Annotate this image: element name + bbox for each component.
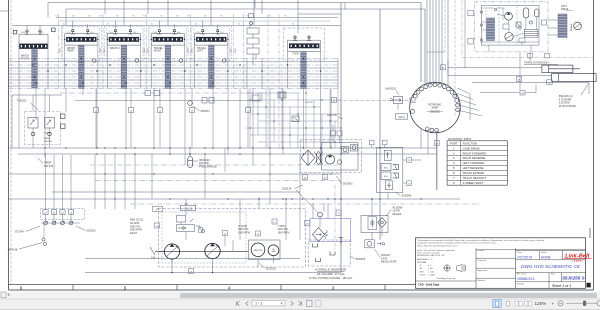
svg-text:EACH: EACH	[130, 232, 137, 235]
svg-text:C R A N E S: C R A N E S	[572, 260, 583, 263]
solenoid valve MAJ5152	[386, 88, 408, 120]
svg-text:RELIEF: RELIEF	[393, 213, 402, 216]
right drive motor assembly	[462, 0, 594, 58]
svg-text:125%: 125%	[535, 301, 547, 306]
svg-text:3000: 3000	[104, 47, 106, 53]
wire top-right jumper	[255, 0, 341, 14]
label 7 GPM	[278, 225, 290, 235]
wire cylinder feeds	[441, 65, 590, 95]
Link-Belt logo	[564, 253, 592, 262]
svg-text:950: 950	[55, 16, 58, 18]
oil fan pump P4	[268, 245, 279, 256]
sheet bottom border	[9, 285, 594, 291]
wire joint right fanout	[458, 85, 537, 121]
svg-text:OIL VOLUME - 117 GAL: OIL VOLUME - 117 GAL	[317, 272, 346, 276]
svg-text:RIGHT: RIGHT	[154, 50, 162, 53]
svg-text:950: 950	[284, 16, 287, 18]
svg-text:Weight: Weight	[517, 283, 524, 286]
pressure labels	[60, 47, 237, 53]
sheet left border	[9, 0, 12, 290]
svg-text:JOINT: JOINT	[431, 106, 439, 110]
label PRDR 500 PSI	[38, 158, 54, 168]
svg-text:950: 950	[116, 16, 119, 18]
svg-text:950: 950	[220, 16, 223, 18]
svg-text:A1: A1	[107, 23, 109, 26]
wire bus drops	[19, 89, 331, 166]
pilot manifold grid	[60, 89, 262, 149]
svg-text:NONE: NONE	[541, 255, 552, 259]
label HI GPM	[238, 225, 250, 235]
svg-text:Material: Material	[478, 279, 486, 282]
svg-text:3000: 3000	[100, 47, 102, 53]
pump shaft	[150, 247, 249, 260]
svg-text:and details contained herein i: and details contained herein is prohibit…	[417, 242, 497, 245]
svg-text:SOL: SOL	[384, 168, 389, 170]
svg-text:Third Angle Projection: Third Angle Projection	[436, 277, 456, 280]
svg-text:A1: A1	[292, 23, 294, 26]
svg-text:3000: 3000	[191, 47, 193, 53]
sheet right border	[590, 0, 594, 290]
svg-text:FRONT: FRONT	[21, 57, 30, 60]
svg-text:950: 950	[204, 16, 207, 18]
valve bank V1 WINCH FRONT	[19, 26, 48, 89]
svg-text:TOTAL SYSTEM VOLUME - 186 GAL: TOTAL SYSTEM VOLUME - 186 GAL	[309, 276, 353, 280]
label track extension	[524, 61, 558, 65]
pump group enclosure 55J0225	[159, 209, 306, 268]
svg-text:950: 950	[88, 16, 91, 18]
svg-text:LEFT FORWARD: LEFT FORWARD	[463, 161, 485, 165]
label 55J0225	[259, 263, 276, 270]
label R&B CO pumps	[130, 219, 144, 236]
relief valve P1J0086 10 PSI	[361, 198, 403, 240]
svg-text:2/27/2015: 2/27/2015	[517, 255, 532, 259]
svg-text:SOL: SOL	[384, 176, 389, 178]
cylinder C2	[552, 74, 597, 82]
svg-text:REGULATOR: REGULATOR	[381, 261, 397, 264]
port tags pump group	[155, 219, 278, 274]
svg-text:2-SPEED SHIFT: 2-SPEED SHIFT	[463, 181, 484, 185]
svg-text:This drawing is the property o: This drawing is the property of Link-Bel…	[417, 239, 544, 242]
wire mid lines	[9, 147, 481, 204]
pdf viewer toolbar	[0, 299, 600, 310]
svg-text:J8G0148: J8G0148	[8, 249, 18, 252]
svg-text:REFERENCE LEAD PLUS .005: REFERENCE LEAD PLUS .005	[417, 254, 444, 257]
svg-text:PRECHARGE: PRECHARGE	[199, 164, 217, 168]
accumulator 08J0130	[188, 153, 217, 168]
svg-text:55J0256 S: 55J0256 S	[562, 276, 585, 281]
left drive motor	[548, 5, 581, 38]
gerotor pump P3	[249, 240, 281, 260]
solenoid valve block 35J5086	[369, 82, 421, 199]
svg-text:J7J0784: J7J0784	[15, 231, 25, 234]
svg-text:REAR: REAR	[67, 50, 74, 53]
svg-text:55J0005: 55J0005	[356, 258, 366, 261]
wire top feeds	[0, 0, 425, 273]
svg-text:HYDRAULIC RESERVOIR: HYDRAULIC RESERVOIR	[315, 268, 346, 272]
svg-text:950: 950	[268, 16, 271, 18]
svg-text:35J5086: 35J5086	[402, 195, 412, 198]
svg-text:Date: Date	[517, 251, 522, 254]
svg-text:.XXX: .XXX	[419, 271, 424, 273]
svg-text:4H88M2013: 4H88M2013	[517, 277, 535, 281]
main pump P1	[159, 244, 180, 262]
svg-text:± .010: ± .010	[428, 271, 435, 273]
svg-text:LEFT: LEFT	[197, 50, 203, 53]
svg-text:DECIMAL: DECIMAL	[417, 261, 428, 264]
svg-text:SOL 23: SOL 23	[184, 209, 192, 211]
svg-text:FUNCTION: FUNCTION	[463, 141, 477, 145]
label hydraulic reservoir	[309, 268, 353, 280]
valve bank V5 TRAVEL LEFT	[192, 21, 232, 89]
svg-text:Sheet 1 of 1: Sheet 1 of 1	[552, 284, 571, 288]
pilot valve SOL 23	[153, 199, 205, 240]
svg-text:73J0052: 73J0052	[17, 99, 28, 103]
rotating joint ports	[411, 83, 460, 132]
svg-text:T.SOP: T.SOP	[292, 53, 299, 56]
svg-text:55J0062: 55J0062	[343, 183, 353, 186]
port tag boxes bank1	[13, 28, 55, 34]
svg-text:26.38 STROKE: 26.38 STROKE	[559, 105, 577, 108]
svg-text:MAJ5152: MAJ5152	[386, 88, 397, 91]
relief valve block 73J0052	[12, 95, 65, 148]
cylinder C1	[542, 65, 580, 72]
pdf viewer scrollbar	[0, 292, 600, 300]
svg-text:unless otherwise specified.: unless otherwise specified.	[417, 251, 441, 254]
wire main bus	[9, 58, 339, 89]
svg-text:345 PSI: 345 PSI	[305, 102, 313, 104]
svg-text:RIGHT FORWARD: RIGHT FORWARD	[463, 151, 487, 155]
oil cooler circuit 55J0062	[300, 125, 361, 186]
labels top run	[55, 16, 294, 26]
svg-text:CAD - Solid Edge: CAD - Solid Edge	[418, 283, 440, 287]
svg-text:ANGULAR ±. 1°: ANGULAR ±. 1°	[417, 258, 433, 261]
svg-text:DWG HYD SCHEMATIC CE: DWG HYD SCHEMATIC CE	[521, 264, 581, 269]
rotating joint port table	[447, 137, 507, 185]
svg-text:3000: 3000	[60, 47, 62, 53]
svg-text:TRACK EXTEND: TRACK EXTEND	[463, 171, 485, 175]
svg-text:3000: 3000	[235, 47, 237, 53]
svg-text:TRACK RETRACT: TRACK RETRACT	[463, 176, 487, 180]
svg-text:950: 950	[176, 16, 179, 18]
svg-text:A1: A1	[238, 23, 240, 26]
wire joint left feed	[332, 98, 416, 103]
valve bank V4 TRAVEL RIGHT	[148, 21, 188, 89]
wire joint bottom drops	[421, 130, 437, 190]
svg-text:3445 PSI: 3445 PSI	[327, 114, 337, 117]
svg-text:950: 950	[72, 16, 75, 18]
label cylinder spec	[559, 83, 589, 108]
svg-text:inches. The tolerances below: inches. The tolerances below are applica…	[417, 249, 455, 252]
section boundary lines	[59, 14, 280, 148]
svg-text:GEROTOR: GEROTOR	[254, 250, 263, 252]
svg-text:CW: CW	[151, 256, 156, 260]
svg-text:3000: 3000	[147, 47, 149, 53]
svg-text:Scale: Scale	[541, 252, 547, 254]
valve bank V3 WINCH 2	[104, 21, 144, 89]
wire joint feeders top	[427, 0, 448, 86]
svg-text:± .0005: ± .0005	[428, 275, 436, 277]
valve bank V6 TELE	[284, 28, 325, 89]
pump pilot network	[246, 89, 343, 166]
svg-text:3000: 3000	[187, 47, 189, 53]
svg-text:A1: A1	[151, 23, 153, 26]
title DWG HYD SCHEMATIC CE	[516, 264, 586, 273]
svg-text:WINCH 2: WINCH 2	[110, 47, 121, 50]
svg-text:950: 950	[132, 16, 135, 18]
svg-text:950: 950	[143, 16, 146, 18]
main pump P2	[205, 243, 220, 258]
svg-text:55J0138: 55J0138	[282, 187, 292, 190]
wire long verticals right	[282, 130, 439, 190]
svg-text:Checked: Checked	[478, 260, 487, 262]
svg-text:A1: A1	[63, 23, 65, 26]
title block date scale	[516, 251, 586, 260]
wire mid drops	[45, 148, 300, 240]
svg-text:EO Level: EO Level	[517, 274, 527, 276]
svg-text:ROTATING JOINT: ROTATING JOINT	[448, 137, 471, 141]
svg-text:950: 950	[160, 16, 163, 18]
svg-text:1863 RPM: 1863 RPM	[278, 232, 290, 235]
svg-text:55J0225: 55J0225	[266, 267, 276, 270]
valve bank V2 WINCH REAR	[62, 21, 102, 89]
svg-text:Unless otherwise specified dim: Unless otherwise specified dimensions ar…	[417, 244, 458, 247]
svg-text:62J0002: 62J0002	[87, 230, 97, 233]
svg-text:A1: A1	[195, 23, 197, 26]
wire pump suction	[85, 198, 341, 274]
suction filter assembly	[291, 185, 350, 250]
wire top right routing	[345, 0, 548, 117]
svg-text:BRAKE: BRAKE	[570, 23, 573, 31]
third angle projection symbol	[436, 264, 465, 280]
svg-text:55J0221: 55J0221	[430, 109, 441, 113]
svg-text:PORT: PORT	[450, 141, 458, 145]
title block	[416, 238, 586, 288]
svg-text:Approved: Approved	[478, 269, 488, 272]
rotating joint 55J0221	[410, 82, 461, 133]
gauge port manifold 62J0002	[8, 155, 97, 252]
svg-text:RIGHT REVERSE: RIGHT REVERSE	[463, 156, 486, 160]
svg-text:Drawn: Drawn	[478, 249, 485, 252]
svg-text:PRDR: PRDR	[44, 138, 51, 140]
svg-text:3000: 3000	[231, 47, 233, 53]
svg-text:TRACK EXTENSION: TRACK EXTENSION	[524, 61, 549, 65]
svg-text:LEFT REVERSE: LEFT REVERSE	[463, 166, 484, 170]
weight and sheet	[517, 282, 591, 289]
svg-text:CASE DRAIN: CASE DRAIN	[463, 146, 480, 150]
valve stack SOL cluster	[247, 14, 259, 65]
pressure regulator 36J1907	[365, 240, 397, 264]
svg-text:65J0057: 65J0057	[201, 110, 211, 113]
hydraulic reservoir 55J0005	[309, 240, 366, 266]
svg-text:65J030: 65J030	[44, 133, 52, 135]
CAD cell	[416, 281, 477, 287]
svg-text:500 PSI: 500 PSI	[44, 141, 52, 143]
title block middle column	[476, 248, 516, 288]
svg-text:.XXXX: .XXXX	[419, 275, 426, 277]
svg-text:950: 950	[187, 16, 190, 18]
EO level and number	[516, 273, 586, 282]
svg-text:SOL 8: SOL 8	[398, 117, 405, 119]
svg-text:1 / 1: 1 / 1	[255, 302, 262, 306]
svg-text:950: 950	[99, 16, 102, 18]
svg-text:3000: 3000	[144, 47, 146, 53]
svg-text:1863 RPM: 1863 RPM	[238, 232, 250, 235]
